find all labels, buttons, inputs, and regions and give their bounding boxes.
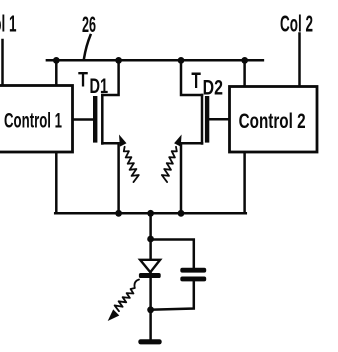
svg-text:Col 2: Col 2 bbox=[280, 11, 313, 37]
svg-text:D2: D2 bbox=[203, 75, 223, 99]
svg-text:26: 26 bbox=[82, 12, 96, 37]
svg-text:Control 1: Control 1 bbox=[4, 109, 62, 133]
svg-text:Col 1: Col 1 bbox=[0, 11, 17, 37]
svg-text:Control 2: Control 2 bbox=[239, 109, 306, 133]
svg-text:D1: D1 bbox=[90, 74, 109, 98]
svg-text:T: T bbox=[78, 68, 88, 91]
svg-text:T: T bbox=[191, 68, 201, 93]
